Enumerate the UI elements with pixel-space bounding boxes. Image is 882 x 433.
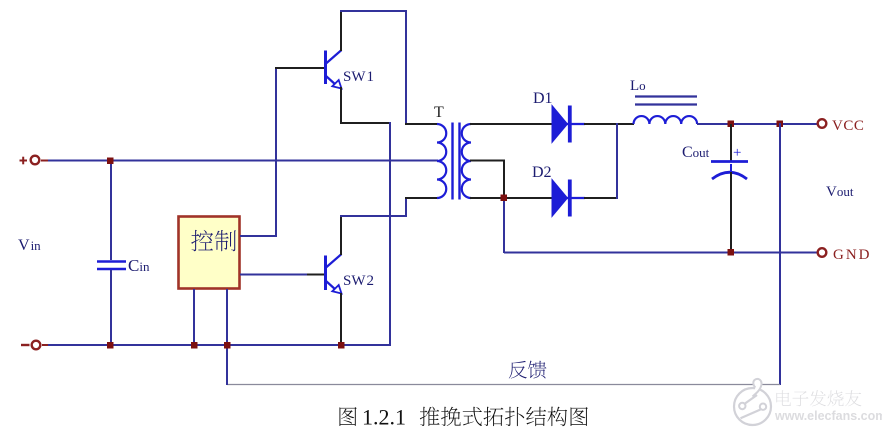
terminal GND [818,247,872,263]
junction node control pin B [224,342,231,349]
transformer T core [453,123,460,200]
svg-text:D1: D1 [533,90,553,107]
svg-text:+: + [733,145,741,161]
wire D2 cathode stub [584,197,618,199]
wire Cout top lead [730,124,732,161]
wire SW1 emitter to bottom rail [389,122,391,345]
transistor SW2 (NPN) [326,254,342,294]
svg-text:D2: D2 [532,164,552,181]
inductor Lo core bars [635,97,697,105]
wire top loop horizontal [340,10,407,12]
wire control pin A to bottom rail [193,289,195,345]
wire center tap drop upper [503,160,505,198]
wire SW1 collector riser [340,10,342,51]
wire feedback vertical from VCC [779,123,781,385]
wire SW2 collector riser [340,215,342,255]
wire feedback horizontal [227,384,780,386]
junction node Cin top [107,158,114,165]
caption 图 [339,407,356,426]
svg-text:SW2: SW2 [343,273,374,289]
wire secondary center tap [470,160,505,162]
diode D1 [552,106,585,143]
wire top rail (+) to transformer center tap [48,160,438,162]
capacitor Cin [97,262,126,270]
wire SW1 emitter jog [340,122,390,124]
label 控制 [191,230,236,251]
wire control output to SW1 base (vertical riser) [275,67,277,237]
transistor SW1 (NPN) [326,50,342,89]
wire SW2 base lead [307,274,325,276]
svg-text:T: T [434,104,444,121]
wire SW2 collector step [405,197,407,217]
wire GND rail [504,252,817,254]
junction node Cin bottom [107,342,114,349]
svg-text:VCC: VCC [832,118,864,134]
watermark logo circle [734,379,771,425]
transformer T primary winding [437,124,446,198]
wire D1 cathode to Lo [584,123,634,125]
wire top loop right vertical [405,10,407,125]
wire secondary bottom to D2 anode [470,197,553,199]
wire to transformer primary bottom [405,197,438,199]
wire Cin top branch [110,161,112,261]
wire control pin B to bottom rail [226,289,228,345]
terminal VCC [818,118,865,134]
svg-text:www.elecfans.com: www.elecfans.com [774,409,882,423]
svg-text:Cout: Cout [682,144,710,161]
svg-text:SW1: SW1 [343,69,374,85]
junction node Cout bottom [728,249,735,256]
wire to transformer primary top [405,123,438,125]
svg-text:Cin: Cin [128,256,150,275]
wire control output to SW2 base [240,274,308,276]
wire center tap drop lower [503,197,505,253]
wire SW1 base lead [275,67,325,69]
junction node SW2 emitter [338,342,345,349]
capacitor Cout (polarized) [711,162,748,180]
junction node feedback tap [777,121,784,128]
terminal + (positive input) [20,156,50,165]
svg-text:1.2.1: 1.2.1 [362,405,406,430]
terminal - (negative input) [21,341,49,350]
wire SW2 collector horizontal [340,215,407,217]
wire secondary top to D1 anode [470,123,553,125]
wire SW2 emitter to bottom rail [340,293,342,345]
inductor Lo [634,116,698,124]
junction node control pin A [191,342,198,349]
wire Lo to VCC terminal [697,123,817,125]
control block U1 (控制) [179,217,240,289]
diode D2 [552,180,585,217]
junction node Cout top [728,121,735,128]
wire bottom rail (-) [48,344,391,346]
svg-text:GND: GND [833,247,872,263]
caption 推挽式拓扑结构图 [420,407,588,427]
wire feedback drop from bottom rail [226,345,228,385]
wire D2 cathode riser to D1 row [616,123,618,199]
watermark 电子发烧友 [776,390,861,406]
svg-text:Lo: Lo [630,78,646,94]
wire Cout bottom lead [730,172,732,253]
svg-text:Vout: Vout [826,184,854,200]
wire Cin bottom branch [110,270,112,345]
wire SW1 emitter riser [340,87,342,124]
junction node center-tap/D2 row [501,195,508,202]
label 反馈 [509,361,547,379]
wire control output to SW1 base (horizontal) [240,235,277,237]
svg-text:Vin: Vin [18,237,41,254]
transformer T secondary winding [462,124,471,198]
